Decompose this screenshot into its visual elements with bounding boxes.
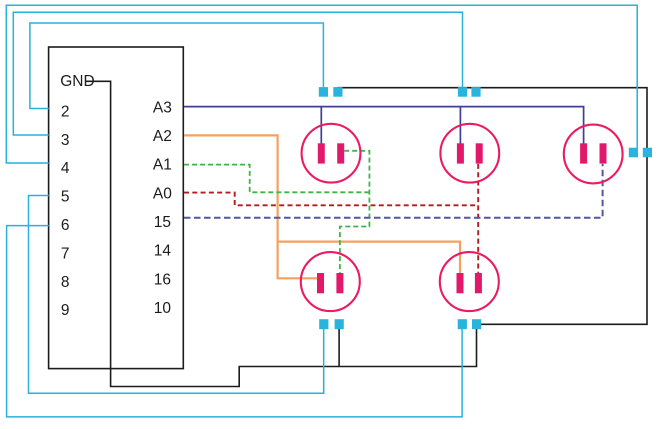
IC U1 (microcontroller board outline) bbox=[49, 47, 184, 369]
svg-text:A2: A2 bbox=[153, 128, 172, 145]
pad S5 right bbox=[472, 319, 481, 329]
pad S5 left bbox=[458, 319, 467, 329]
wire D15 (blue dashed, to right pin of S3) bbox=[184, 164, 603, 218]
wire A2 (orange, to left pins of S4 S5) bbox=[184, 135, 460, 278]
wire GND (black ground chain to bottom buttons) bbox=[86, 81, 647, 386]
svg-text:16: 16 bbox=[154, 271, 171, 288]
svg-text:7: 7 bbox=[61, 245, 70, 262]
pad S4 left bbox=[319, 319, 328, 329]
svg-text:9: 9 bbox=[61, 302, 70, 319]
svg-text:10: 10 bbox=[154, 300, 172, 317]
svg-text:A1: A1 bbox=[153, 157, 172, 174]
svg-text:2: 2 bbox=[61, 103, 70, 120]
pushbutton S4 bbox=[301, 252, 360, 311]
svg-text:6: 6 bbox=[61, 217, 70, 234]
pad S4 right bbox=[335, 319, 344, 329]
pushbutton S1 bbox=[302, 124, 361, 183]
pad S1 right bbox=[333, 87, 342, 97]
svg-text:14: 14 bbox=[154, 243, 172, 260]
wire A1 (green dashed, to right pins of S1 S4) bbox=[184, 151, 369, 273]
pad S2 right bbox=[471, 87, 480, 97]
pad S2 left bbox=[458, 87, 467, 97]
wire ground stub S4 right pad bbox=[338, 324, 340, 367]
svg-text:5: 5 bbox=[61, 189, 70, 206]
wire D4 (cyan, to S3 left pad) bbox=[6, 5, 637, 163]
svg-text:3: 3 bbox=[61, 132, 70, 149]
wire D2 (cyan, to S1 top-left pad) bbox=[30, 23, 324, 109]
pad S3 left bbox=[629, 148, 638, 158]
svg-text:15: 15 bbox=[154, 214, 171, 231]
svg-text:A0: A0 bbox=[153, 185, 172, 202]
svg-text:4: 4 bbox=[61, 160, 70, 177]
wire D6 (cyan, to S5 bottom-left pad) bbox=[7, 226, 463, 417]
pushbutton S5 bbox=[440, 252, 499, 311]
wire D3 (cyan, to S2 top-left pad) bbox=[13, 12, 462, 135]
pad S3 right bbox=[643, 148, 652, 158]
wire D5 (cyan, to S4 bottom-left pad) bbox=[29, 196, 324, 394]
pushbutton S2 bbox=[440, 124, 499, 183]
wire A3 (navy, to left pins of S1 S2 S3) bbox=[184, 107, 584, 150]
svg-text:8: 8 bbox=[61, 274, 70, 291]
pad S1 left bbox=[319, 87, 328, 97]
svg-text:A3: A3 bbox=[153, 99, 172, 116]
wire A0 (red dashed, to right pins of S2 S5) bbox=[184, 164, 478, 273]
pushbutton S3 bbox=[564, 125, 623, 184]
